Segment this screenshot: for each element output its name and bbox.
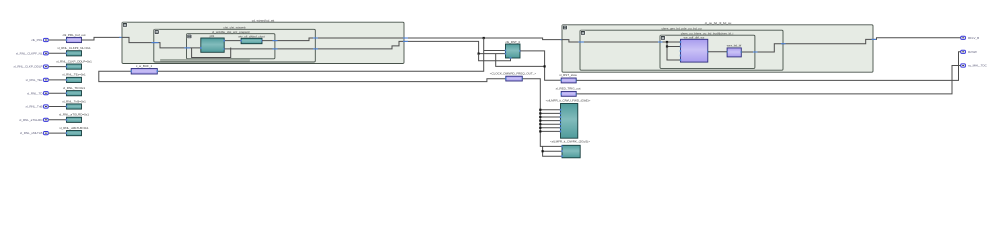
wire: ILA probe stub — [540, 116, 560, 118]
inline clock buffer block CLOCK_DMNRD — [506, 76, 523, 81]
svg-text:RFLV_B: RFLV_B — [968, 36, 979, 40]
scrollbar of inner hierarchy — [161, 59, 250, 61]
junction node aresetn — [544, 65, 546, 67]
trigger block xl_RED_TRIG — [561, 91, 576, 96]
svg-text:clses_ou_blses_ou_bd_budlfjcls: clses_ou_blses_ou_bd_budlfjclses_bl_i — [681, 31, 734, 35]
main axi ip block — [681, 39, 708, 62]
pin ticks pll and buffer — [200, 47, 201, 49]
output port uart_txd — [961, 64, 966, 67]
inner hierarchy clk_rst_wizweb — [154, 29, 315, 62]
junction node fan — [539, 127, 541, 129]
inner hierarchy axi_dma_blk — [660, 35, 755, 68]
PLL primitive block plle2 — [201, 38, 224, 52]
svg-text:wez_bd_bf: wez_bd_bf — [727, 44, 742, 48]
svg-text:clst_clst_wizweb: clst_clst_wizweb — [223, 25, 246, 29]
junction node fan — [539, 123, 541, 125]
output port RGB_is_B — [961, 36, 966, 39]
junction node pin2 — [666, 45, 668, 47]
pin ticks clock buffer — [505, 78, 506, 80]
svg-text:ct_ou_bd_rtl_bd_ou: ct_ou_bd_rtl_bd_ou — [705, 21, 732, 25]
wire: clk net from clk_wizard to right — [404, 38, 562, 40]
inline clk buffer block util_ds_buf — [131, 69, 157, 75]
svg-text:xl_RNL_TD=0x1: xl_RNL_TD=0x1 — [63, 86, 85, 90]
hierarchy container rtl_bd_out — [562, 25, 873, 72]
svg-text:xl_RNL_TnB=0x1: xl_RNL_TnB=0x1 — [62, 99, 86, 103]
clkfb feedback loop wire — [192, 48, 231, 58]
proc_sys_reset block — [506, 44, 521, 58]
junction node — [542, 150, 544, 152]
wire: clk branch bottom pin — [667, 47, 681, 61]
junction node fan — [539, 109, 541, 111]
svg-text:xl_RNL_CLKP_DDLP=0x1: xl_RNL_CLKP_DDLP=0x1 — [56, 59, 92, 63]
wire: locked output inside hierarchy — [224, 41, 404, 49]
wire: aux branch up from aresetn net — [496, 54, 545, 67]
svg-text:clk_PRL_buf_out: clk_PRL_buf_out — [63, 33, 86, 37]
svg-text:xl_wizdbu_clst_wiz_prepard: xl_wizdbu_clst_wiz_prepard — [212, 30, 250, 34]
pin ticks proc_sys_reset — [505, 50, 506, 52]
wire: clk input routing inside hierarchy — [122, 37, 201, 48]
wire: locked net from clk_wizard — [404, 41, 506, 53]
wire: ILA probe stub — [540, 109, 560, 111]
svg-text:xl_RNL_aTGLRD=0x1: xl_RNL_aTGLRD=0x1 — [59, 113, 89, 117]
pin ticks trigger block — [561, 93, 562, 95]
svg-text:<xlLMFR_it_CfWRK_(2GoS)>: <xlLMFR_it_CfWRK_(2GoS)> — [550, 140, 590, 144]
svg-text:xl_RST_slow: xl_RST_slow — [559, 73, 577, 77]
svg-text:cd_wizard/cd_att: cd_wizard/cd_att — [252, 18, 275, 22]
wire: trigger long net to port 3 — [576, 66, 961, 94]
pin ticks reset sync — [561, 79, 562, 81]
wire: register out to hierarchy edge — [741, 39, 873, 52]
wire: ILA probe stub — [540, 127, 560, 129]
second ILA block — [562, 145, 580, 158]
svg-text:xl_RNL_CLKP_DDLP: xl_RNL_CLKP_DDLP — [13, 65, 42, 69]
svg-text:xl_RNL_TD: xl_RNL_TD — [27, 91, 43, 95]
wire: ILA probe stub — [540, 112, 560, 114]
inner hierarchy clk_wiz_prim — [187, 34, 275, 59]
svg-text:xl_RNL_CLKPF_NL: xl_RNL_CLKPF_NL — [16, 51, 43, 55]
wire: peripheral_aresetn output — [520, 51, 561, 80]
svg-text:<xlLMFR_it_CfWU_FWD_(GbE)>: <xlLMFR_it_CfWU_FWD_(GbE)> — [546, 98, 591, 102]
wire: buffered clk down to ILA fan — [522, 79, 562, 147]
wire: hierarchy out to port RGB — [873, 38, 961, 40]
svg-text:xl_RNL_aTGLRD: xl_RNL_aTGLRD — [19, 118, 43, 122]
junction node clk net — [483, 37, 485, 39]
pin ticks axi ip block — [680, 41, 681, 43]
wire: clk branch down to proc_sys_reset slowest_sync_clk — [484, 50, 506, 52]
svg-text:xy_MHL_TDC: xy_MHL_TDC — [968, 64, 988, 68]
wire: reset sync long net to port 2 — [576, 52, 961, 81]
wire: ILA probe stub — [540, 130, 560, 132]
svg-text:RzNW: RzNW — [968, 50, 977, 54]
junction node fan — [539, 120, 541, 122]
wire: ip block to register block — [708, 51, 727, 53]
wire: ILA probe stub — [540, 120, 560, 122]
hierarchy container clk_wizard_bd — [122, 22, 404, 63]
svg-text:xl_RNL_CLKPF_NL=0x1: xl_RNL_CLKPF_NL=0x1 — [57, 46, 91, 50]
junction node fan — [539, 112, 541, 114]
inner hierarchy gen_block — [580, 30, 783, 70]
wire: locked branch to reset block bottom pin — [479, 54, 511, 61]
wire: clk branch pin2 — [667, 42, 681, 47]
svg-text:xl_RNL_TEx: xl_RNL_TEx — [26, 78, 43, 82]
wire: clk long return route to clk buffer block — [99, 38, 506, 82]
pin ticks second ILA — [561, 145, 562, 147]
wire: second ILA stub — [543, 150, 562, 152]
wire: pll to buffer — [224, 40, 241, 42]
junction node locked net — [478, 53, 480, 55]
pin ticks clk buffer — [131, 70, 132, 72]
svg-text:pll1: pll1 — [210, 34, 215, 38]
wire: clk port row to hierarchy clk_wiz — [82, 37, 121, 40]
ILA probe block — [561, 104, 578, 139]
svg-text:xl_RNL_uMLTLB=0x1: xl_RNL_uMLTLB=0x1 — [59, 126, 89, 130]
clkout buffer block — [241, 38, 262, 43]
svg-text:c_w_BUF_1: c_w_BUF_1 — [136, 64, 153, 68]
svg-text:clses_ges_bd_pde_ou_bd_ou: clses_ges_bd_pde_ou_bd_ou — [661, 26, 701, 30]
svg-text:xl_RNL_TnB: xl_RNL_TnB — [25, 105, 42, 109]
svg-text:xl_RED_TRIG_out: xl_RED_TRIG_out — [556, 87, 581, 91]
wire: vertical bus to second ILA — [543, 146, 562, 156]
pin ticks register block — [726, 51, 727, 53]
reset sync block xl_RST_slow — [561, 78, 576, 83]
wire: clk entry routing container2 — [562, 40, 681, 42]
svg-text:we_adf_dkf_wz: we_adf_dkf_wz — [684, 35, 705, 39]
svg-text:wiz_ull_clkbuf_clout: wiz_ull_clkbuf_clout — [238, 34, 265, 38]
wire: buffer clk_out to hierarchy edge — [262, 38, 404, 41]
blue crossing ticks inner edges — [273, 40, 278, 42]
junction node fan — [539, 116, 541, 118]
junction node pin1 — [666, 41, 668, 43]
output register block — [727, 48, 741, 57]
wire: ILA probe stub — [540, 123, 560, 125]
junction node fan — [539, 130, 541, 132]
svg-text:<CLOCK_DMNRD_FREQ_OUT_>: <CLOCK_DMNRD_FREQ_OUT_> — [490, 72, 537, 76]
svg-text:clk_RST_0: clk_RST_0 — [505, 40, 520, 44]
output port buzzer — [961, 50, 966, 53]
svg-text:clk_PRL: clk_PRL — [31, 38, 43, 42]
svg-text:xl_RNL_uMLTLB: xl_RNL_uMLTLB — [20, 131, 43, 135]
svg-text:xl_RNL_TEx=0x1: xl_RNL_TEx=0x1 — [62, 73, 86, 77]
